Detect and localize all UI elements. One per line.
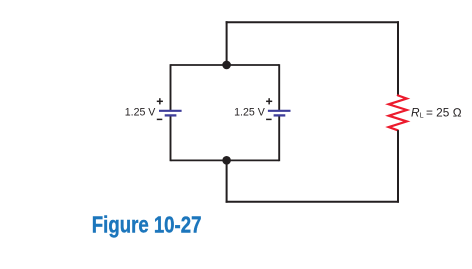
wire: inner loop top edge (171, 64, 280, 66)
svg-text:1.25 V: 1.25 V (125, 106, 157, 118)
battery B2 minus sign (266, 118, 272, 120)
wire: outer right upper vertical (to resistor) (397, 21, 399, 95)
svg-text:1.25 V: 1.25 V (234, 106, 266, 118)
resistor label RL = 25 ohms (411, 105, 462, 119)
wire: inner loop right side lower (from battery B2 - plate) (278, 116, 280, 162)
wire: inner loop left side upper (to battery B1 + plate) (170, 64, 172, 110)
battery B2 positive plate (268, 110, 291, 112)
wire: stub from top node up to outer top wire (226, 21, 228, 65)
battery B1 positive plate (159, 110, 182, 112)
battery B2 negative plate (274, 114, 286, 116)
wire: stub from bottom node down to outer bottom wire (226, 160, 228, 202)
resistor RL zigzag (389, 95, 407, 130)
svg-text:= 25 Ω: = 25 Ω (426, 105, 462, 119)
node: top junction dot (222, 61, 231, 70)
svg-text:L: L (420, 111, 424, 120)
battery B1 negative plate (165, 114, 177, 116)
wire: outer top horizontal (226, 21, 399, 23)
battery B1 plus sign (157, 98, 163, 104)
wire: inner loop bottom edge (171, 159, 280, 161)
battery B2 plus sign (266, 98, 272, 104)
wire: outer right lower vertical (from resistor) (397, 130, 399, 203)
wire: outer bottom horizontal (226, 201, 399, 203)
svg-text:Figure 10-27: Figure 10-27 (92, 213, 202, 238)
battery B1 minus sign (157, 118, 163, 120)
wire: inner loop right side upper (to battery B2 + plate) (278, 64, 280, 110)
node: bottom junction dot (222, 156, 231, 165)
wire: inner loop left side lower (from battery B1 - plate) (170, 116, 172, 162)
